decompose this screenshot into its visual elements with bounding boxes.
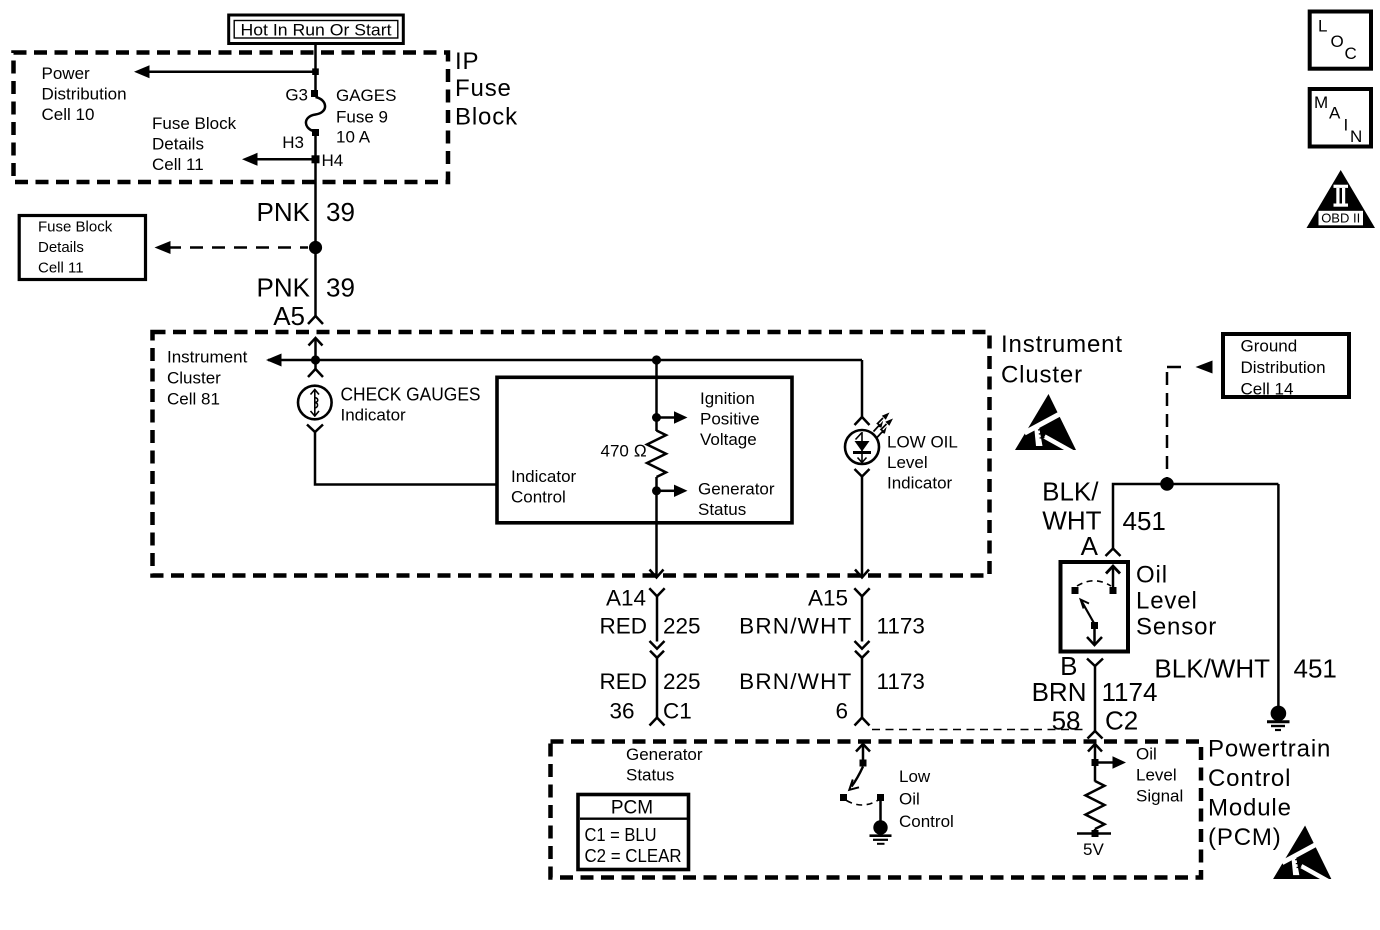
wire stub + connector into CHECK GAUGES indicator	[308, 360, 323, 377]
wire through resistor column	[655, 360, 658, 431]
svg-text:Sensor: Sensor	[1136, 614, 1217, 641]
svg-text:Status: Status	[698, 500, 746, 519]
svg-text:C1: C1	[663, 699, 692, 724]
svg-text:RED: RED	[599, 669, 647, 694]
svg-text:Fuse Block: Fuse Block	[152, 114, 237, 133]
svg-text:PNK: PNK	[257, 273, 311, 303]
Hot In Run Or Start label box	[229, 15, 404, 44]
svg-text:Low: Low	[899, 767, 931, 786]
Fuse Block Details Cell 11 reference box	[19, 216, 145, 280]
Powertrain Control Module dashed box	[551, 742, 1202, 878]
svg-text:H3: H3	[282, 133, 304, 152]
svg-text:39: 39	[326, 197, 355, 227]
ESD symbol (instrument cluster)	[1015, 394, 1080, 456]
svg-text:58: 58	[1052, 706, 1081, 736]
connector + wire from CHECK GAUGES to Indicator Control	[307, 425, 497, 485]
switch right contact	[877, 794, 884, 801]
svg-text:(PCM): (PCM)	[1208, 824, 1282, 851]
dashed reference arrow from Ground Distribution to splice	[1167, 361, 1213, 479]
MAIN reference box	[1310, 89, 1371, 147]
svg-text:5V: 5V	[1083, 840, 1104, 859]
svg-text:Powertrain: Powertrain	[1208, 736, 1331, 763]
wire label PNK 39 (upper)	[257, 197, 355, 227]
svg-text:C: C	[1345, 44, 1357, 63]
oil level sensor internals	[1072, 566, 1121, 645]
svg-text:Signal: Signal	[1136, 787, 1183, 806]
svg-text:PNK: PNK	[257, 197, 311, 227]
connector female half below sensor	[1087, 659, 1103, 732]
svg-text:Distribution: Distribution	[1241, 358, 1326, 377]
connector + wire from LED down to A15 with exit arrow	[855, 469, 870, 578]
svg-text:H4: H4	[322, 151, 344, 170]
svg-text:Level: Level	[1136, 766, 1177, 785]
svg-text:G3: G3	[285, 86, 308, 105]
svg-text:1173: 1173	[877, 614, 925, 639]
svg-text:Cluster: Cluster	[167, 369, 221, 388]
dashed reference arrow to Fuse Block Details box	[155, 241, 309, 254]
svg-text:Cell 11: Cell 11	[152, 155, 204, 174]
junction node above CHECK GAUGES	[311, 355, 320, 364]
svg-text:M: M	[1314, 93, 1328, 112]
svg-text:225: 225	[663, 614, 701, 639]
svg-text:Details: Details	[152, 135, 204, 154]
svg-text:Power: Power	[42, 64, 91, 83]
Power Distribution Cell 10 label	[42, 64, 127, 124]
wire label BRN/WHT 1173 (lower)	[739, 669, 925, 694]
Ground Distribution Cell 14 reference box	[1223, 334, 1349, 399]
svg-text:1174: 1174	[1102, 677, 1158, 707]
svg-text:Hot In Run Or Start: Hot In Run Or Start	[241, 21, 392, 40]
svg-text:Details: Details	[38, 239, 84, 256]
Indicator Control label	[511, 467, 577, 507]
connector male half entering PCM at 36/C1	[650, 718, 665, 726]
svg-text:Control: Control	[511, 488, 566, 507]
connector half (male) at A5	[308, 316, 323, 324]
Indicator Control box (solid)	[497, 377, 792, 523]
svg-text:Generator: Generator	[626, 745, 703, 764]
svg-text:GAGES: GAGES	[336, 86, 396, 105]
svg-text:Fuse: Fuse	[455, 75, 512, 102]
svg-text:Instrument: Instrument	[1001, 331, 1123, 358]
svg-text:A: A	[1081, 531, 1099, 561]
svg-text:Cell 81: Cell 81	[167, 390, 220, 409]
svg-text:Block: Block	[455, 104, 518, 131]
svg-text:Indicator: Indicator	[887, 474, 953, 493]
svg-text:Instrument: Instrument	[167, 348, 248, 367]
switch common contact	[860, 760, 867, 767]
ground symbol G (right)	[1267, 706, 1290, 730]
svg-text:Ground: Ground	[1241, 337, 1298, 356]
splice junction dot on PNK 39	[309, 241, 322, 254]
svg-text:1173: 1173	[877, 669, 925, 694]
wire label RED 225 (lower)	[599, 669, 700, 694]
IP Fuse Block title	[455, 48, 518, 131]
wire from resistor down to A14 with exit arrow	[650, 477, 664, 578]
svg-text:Module: Module	[1208, 795, 1292, 822]
wire label BLK/WHT 451 (sensor feed)	[1042, 477, 1166, 537]
svg-text:Ignition: Ignition	[700, 389, 755, 408]
Generator Status label (inside box)	[698, 480, 775, 520]
in-line connector on RED wire	[650, 641, 665, 718]
fuse F9 GAGES 10A (wavy element)	[306, 97, 325, 132]
svg-text:Control: Control	[899, 812, 954, 831]
wire + pull-up resistor to 5V	[1094, 766, 1097, 782]
node G3	[285, 86, 318, 105]
wire to internal ground	[879, 801, 882, 821]
svg-text:Level: Level	[1136, 588, 1198, 615]
svg-text:I: I	[1344, 116, 1349, 135]
svg-text:Oil: Oil	[1136, 562, 1168, 589]
svg-text:36: 36	[609, 699, 634, 724]
svg-text:Oil: Oil	[899, 790, 920, 809]
Oil Level Sensor box	[1061, 562, 1129, 652]
wire label RED 225 (upper)	[599, 614, 700, 639]
wire label BRN/WHT 1173 (upper)	[739, 614, 925, 639]
5V supply rail	[1077, 829, 1111, 859]
svg-text:6: 6	[835, 699, 848, 724]
svg-text:10 A: 10 A	[336, 128, 371, 147]
svg-text:Generator: Generator	[698, 480, 775, 499]
low oil control switch: entry arrow	[856, 744, 870, 760]
wire label BLK/WHT 451 (ground leg)	[1154, 654, 1336, 684]
Low Oil Control label	[899, 767, 954, 831]
svg-text:470 Ω: 470 Ω	[601, 442, 647, 461]
svg-text:C1 = BLU: C1 = BLU	[585, 825, 657, 845]
LED light emission arrows	[874, 413, 894, 438]
svg-text:39: 39	[326, 273, 355, 303]
LOW OIL Level Indicator label	[887, 433, 958, 493]
svg-text:Fuse Block: Fuse Block	[38, 219, 113, 236]
pin 58 / connector C2 labels	[1052, 706, 1139, 736]
svg-text:Indicator: Indicator	[511, 467, 577, 486]
switch travel dashed arc	[847, 801, 878, 806]
svg-text:Control: Control	[1208, 765, 1291, 792]
svg-text:IP: IP	[455, 48, 479, 75]
svg-text:Status: Status	[626, 766, 674, 785]
svg-text:A15: A15	[808, 586, 848, 611]
svg-text:A14: A14	[606, 586, 646, 611]
svg-text:451: 451	[1294, 654, 1337, 684]
resistor 470 ohm	[647, 431, 666, 477]
svg-text:A5: A5	[273, 301, 305, 331]
IP Fuse Block dashed box	[14, 53, 449, 183]
svg-text:L: L	[1318, 17, 1327, 36]
svg-text:RED: RED	[599, 614, 647, 639]
Instrument Cluster title (right)	[1001, 331, 1123, 389]
connector arrow entering cluster at A5	[309, 338, 323, 360]
Instrument Cluster Cell 81 label	[167, 348, 248, 409]
junction node above 470 ohm resistor	[652, 355, 661, 364]
svg-text:Indicator: Indicator	[341, 406, 407, 425]
svg-text:451: 451	[1123, 506, 1166, 536]
wire label PNK 39 (lower)	[257, 273, 355, 303]
thin dashed connector face line C2	[872, 729, 1085, 731]
svg-text:LOW OIL: LOW OIL	[887, 433, 958, 452]
svg-text:O: O	[1331, 32, 1344, 51]
Instrument Cluster dashed box	[153, 332, 990, 576]
svg-text:BLK/: BLK/	[1042, 477, 1099, 507]
svg-text:Cluster: Cluster	[1001, 362, 1083, 389]
oil level signal: entry arrow	[1088, 744, 1102, 762]
CHECK GAUGES indicator lamp (circle with gauge element)	[298, 386, 332, 420]
wire: splice to oil level sensor (left branch)	[1106, 484, 1279, 556]
switch left contact	[840, 794, 847, 801]
svg-text:Distribution: Distribution	[42, 85, 127, 104]
ignition positive voltage tap (node + arrow)	[652, 411, 688, 423]
wire: power distribution branch with arrow	[134, 65, 319, 78]
fuse bottom terminal square	[312, 129, 319, 136]
svg-text:Voltage: Voltage	[700, 430, 757, 449]
splice junction dot BLK/WHT 451	[1160, 477, 1174, 491]
connector male half entering PCM at 6	[855, 718, 870, 726]
svg-text:Level: Level	[887, 453, 928, 472]
svg-text:CHECK GAUGES: CHECK GAUGES	[341, 385, 481, 405]
svg-text:OBD II: OBD II	[1321, 210, 1360, 225]
connector female half below A15	[854, 588, 869, 641]
Oil Level Signal label	[1136, 745, 1183, 806]
svg-text:Oil: Oil	[1136, 745, 1157, 764]
wire: splice right branch down to ground	[1277, 484, 1280, 706]
wire label BRN 1174	[1032, 677, 1158, 707]
generator status tap (node + arrow)	[652, 485, 688, 497]
svg-text:C2 = CLEAR: C2 = CLEAR	[585, 846, 682, 866]
ground symbol (low oil control)	[870, 820, 892, 844]
wire: main vertical feed from Hot box	[314, 44, 317, 92]
svg-text:225: 225	[663, 669, 701, 694]
svg-text:BLK/WHT: BLK/WHT	[1154, 654, 1270, 684]
svg-text:A: A	[1329, 104, 1341, 123]
svg-text:C2: C2	[1105, 706, 1138, 736]
resistor (oil level signal pull-up)	[1086, 781, 1105, 829]
OBD II triangle symbol	[1307, 170, 1376, 228]
svg-text:Cell 14: Cell 14	[1241, 380, 1294, 399]
Oil Level Sensor label	[1136, 562, 1217, 641]
ESD symbol (PCM)	[1273, 825, 1335, 884]
Ignition Positive Voltage label	[700, 389, 760, 449]
GAGES Fuse 9 10 A label	[336, 86, 396, 147]
Powertrain Control Module (PCM) title	[1208, 736, 1331, 852]
svg-text:BRN/WHT: BRN/WHT	[739, 669, 852, 694]
pin 36 / connector C1 labels	[609, 699, 691, 724]
svg-text:Cell 11: Cell 11	[38, 260, 84, 277]
connector female half below A14	[649, 588, 664, 641]
wire from bus down to LOW OIL indicator + connector	[855, 360, 870, 425]
LOW OIL LED indicator (circle, diode triangle + bar)	[845, 430, 879, 464]
svg-text:N: N	[1350, 127, 1362, 146]
switch movable arm with arrow	[849, 767, 863, 790]
internal bus wire with left arrow	[266, 354, 862, 367]
LOC reference box	[1310, 12, 1371, 69]
in-line connector on BRN/WHT wire	[855, 641, 870, 718]
Generator Status label (PCM input)	[626, 745, 703, 785]
node H4 with branch arrow	[242, 151, 343, 170]
svg-text:PCM: PCM	[611, 798, 653, 819]
svg-text:BRN/WHT: BRN/WHT	[739, 614, 852, 639]
svg-text:BRN: BRN	[1032, 677, 1087, 707]
svg-text:Cell 10: Cell 10	[42, 105, 95, 124]
CHECK GAUGES Indicator label	[341, 385, 481, 425]
svg-text:Positive: Positive	[700, 410, 760, 429]
svg-text:Fuse 9: Fuse 9	[336, 108, 388, 127]
oil level signal tap (node + arrow)	[1092, 756, 1127, 768]
PCM connector color table	[578, 795, 689, 870]
connector male half entering PCM at 58/C2	[1088, 731, 1103, 739]
Fuse Block Details Cell 11 label (inside fuse box)	[152, 114, 237, 174]
